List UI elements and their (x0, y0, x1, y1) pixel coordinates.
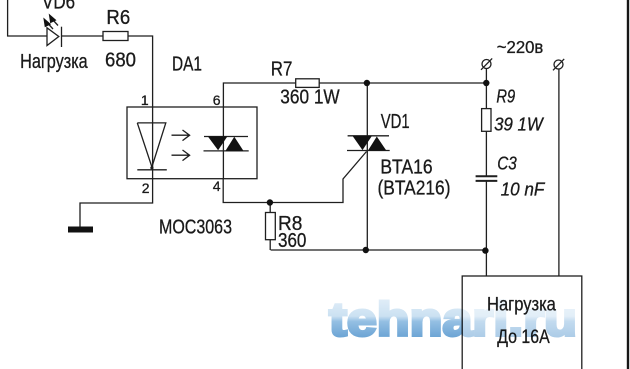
svg-text:6: 6 (213, 92, 221, 108)
svg-text:1: 1 (141, 92, 149, 108)
svg-text:Нагрузка: Нагрузка (20, 51, 88, 73)
svg-text:BTA16: BTA16 (380, 156, 432, 178)
svg-text:DA1: DA1 (172, 54, 202, 76)
svg-text:4: 4 (213, 178, 221, 194)
svg-text:360: 360 (278, 230, 306, 252)
svg-text:R9: R9 (496, 87, 515, 107)
svg-text:R7: R7 (271, 58, 293, 80)
svg-text:360 1W: 360 1W (280, 87, 339, 109)
svg-text:10 nF: 10 nF (501, 179, 546, 199)
svg-text:2: 2 (142, 180, 150, 196)
svg-text:VD1: VD1 (381, 111, 410, 133)
svg-text:39 1W: 39 1W (494, 114, 545, 134)
svg-text:(BTA216): (BTA216) (378, 178, 451, 200)
svg-text:C3: C3 (497, 153, 517, 173)
svg-text:VD6: VD6 (42, 0, 75, 14)
svg-text:680: 680 (105, 50, 136, 72)
svg-text:R6: R6 (106, 7, 130, 29)
svg-text:~220в: ~220в (497, 37, 544, 57)
svg-text:MOC3063: MOC3063 (159, 217, 232, 239)
